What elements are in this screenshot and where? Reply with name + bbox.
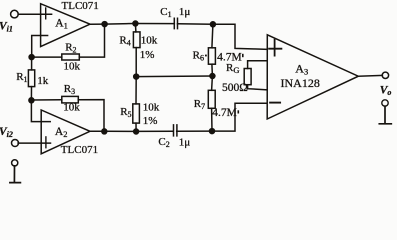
op-amp A1 xyxy=(41,4,90,47)
node output A2 feedback xyxy=(102,129,107,134)
svg-text:1μ: 1μ xyxy=(179,6,191,18)
op-amp A2 xyxy=(41,110,90,154)
svg-text:TLC071: TLC071 xyxy=(61,144,98,156)
terminal Vo xyxy=(382,72,388,78)
artifact dot after R6 xyxy=(205,55,207,57)
minus mark A3 xyxy=(270,102,280,104)
svg-text:A2: A2 xyxy=(55,126,68,139)
svg-text:TLC071: TLC071 xyxy=(62,0,99,12)
node R7 bottom xyxy=(210,129,215,134)
resistor R3 xyxy=(62,96,79,103)
svg-text:A1: A1 xyxy=(55,17,68,30)
wire RG bottom gain pin xyxy=(248,85,267,90)
plus mark A2 xyxy=(45,137,47,148)
resistor R1 xyxy=(28,70,34,87)
svg-text:Vi1: Vi1 xyxy=(0,21,13,34)
wire R6 column xyxy=(212,24,213,76)
wire R1 column xyxy=(30,60,32,101)
artifact tick after 4.7M R6 xyxy=(242,54,244,57)
capacitor C1 xyxy=(174,18,177,28)
node junction R1/R3 xyxy=(29,98,34,103)
svg-text:R1: R1 xyxy=(16,71,27,84)
wire Vi2 to A2 + input xyxy=(18,142,50,144)
terminal Vi1 xyxy=(11,10,19,18)
svg-text:R5: R5 xyxy=(120,106,131,119)
op-amp A3 INA128 xyxy=(267,35,358,119)
svg-text:A3: A3 xyxy=(295,61,308,76)
wire top row A1 output xyxy=(90,24,267,50)
terminal input ground xyxy=(12,160,18,166)
svg-text:10k: 10k xyxy=(143,102,160,114)
node junction R1/R2 xyxy=(29,55,34,60)
node R4 top xyxy=(133,21,138,26)
svg-text:Vi2: Vi2 xyxy=(0,126,13,139)
plus mark A3 xyxy=(269,40,281,56)
svg-text:1k: 1k xyxy=(37,75,49,87)
node R6 top xyxy=(210,22,215,27)
svg-text:500Ω: 500Ω xyxy=(222,82,248,94)
wire Vi1 to A1 + input xyxy=(18,13,51,15)
wire R3 row xyxy=(31,100,104,132)
terminal output ground xyxy=(382,100,388,106)
wire bottom row A2 output xyxy=(90,103,267,131)
svg-text:10k: 10k xyxy=(141,34,158,46)
svg-text:4.7M: 4.7M xyxy=(212,107,237,119)
svg-text:INA128: INA128 xyxy=(281,76,320,90)
node output A1 feedback xyxy=(102,22,107,27)
ground input xyxy=(10,166,21,183)
resistor R2 xyxy=(62,54,80,60)
wire R4 column xyxy=(134,24,137,77)
wire R7 column xyxy=(211,76,214,131)
wire A3 output xyxy=(358,74,382,77)
resistor R5 xyxy=(133,104,140,123)
wire RG top gain pin xyxy=(248,61,267,69)
svg-text:1μ: 1μ xyxy=(179,136,191,148)
svg-text:R2: R2 xyxy=(65,41,76,54)
svg-text:10k: 10k xyxy=(63,102,80,114)
svg-text:R7: R7 xyxy=(194,98,205,111)
svg-text:C1: C1 xyxy=(160,6,171,19)
svg-text:RG: RG xyxy=(226,62,239,75)
svg-text:R6: R6 xyxy=(193,50,204,63)
resistor RG xyxy=(244,69,251,85)
capacitor C2 xyxy=(174,125,177,136)
ground output xyxy=(379,106,391,124)
wire R5 column xyxy=(135,77,137,132)
resistor R4 xyxy=(133,32,140,48)
svg-text:1%: 1% xyxy=(140,49,155,61)
wire R2 row xyxy=(32,24,105,57)
wire A1 inverting input xyxy=(32,36,48,58)
node R5 bottom xyxy=(134,129,139,134)
svg-text:1%: 1% xyxy=(143,115,158,127)
svg-text:C2: C2 xyxy=(158,136,169,149)
wire midpoint row xyxy=(136,75,212,78)
svg-text:R4: R4 xyxy=(119,34,130,47)
node midpoint right xyxy=(210,74,215,79)
svg-text:10k: 10k xyxy=(64,60,81,72)
terminal Vi2 xyxy=(12,140,19,147)
plus mark A1 xyxy=(45,8,47,19)
node midpoint left xyxy=(134,74,139,79)
svg-text:Vo: Vo xyxy=(380,84,392,97)
wire A2 inverting input xyxy=(31,100,50,121)
resistor R7 xyxy=(208,90,215,108)
svg-text:R3: R3 xyxy=(64,83,75,96)
artifact tick after 4.7M R7 xyxy=(238,110,240,113)
resistor R6 xyxy=(208,48,215,64)
